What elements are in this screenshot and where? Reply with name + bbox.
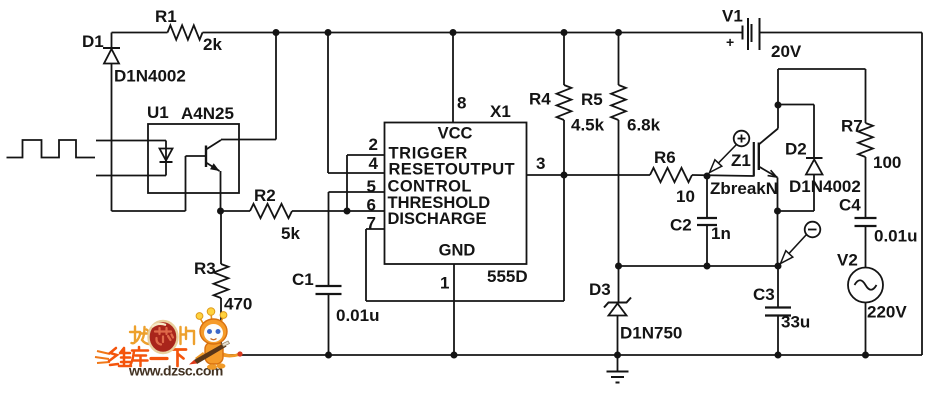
svg-text:ZbreakN: ZbreakN (710, 179, 778, 198)
svg-text:7: 7 (367, 214, 376, 233)
ground symbol (607, 355, 629, 383)
svg-text:R1: R1 (155, 7, 177, 26)
resistor R7 100 (841, 117, 901, 219)
svg-text:D1: D1 (82, 32, 104, 51)
svg-text:C1: C1 (292, 270, 314, 289)
wire input bottom to LED cathode (96, 175, 166, 177)
wire input top to LED anode (96, 140, 166, 142)
svg-text:C3: C3 (753, 285, 775, 304)
wire top rail right of battery to right edge (760, 32, 923, 34)
svg-text:VCC: VCC (438, 125, 473, 143)
svg-text:D3: D3 (589, 280, 611, 299)
svg-text:R2: R2 (254, 186, 276, 205)
svg-text:V2: V2 (837, 251, 858, 270)
capacitor C3 33u (753, 266, 810, 355)
svg-text:R5: R5 (581, 90, 603, 109)
capacitor C4 0.01u (839, 196, 917, 268)
svg-text:R3: R3 (194, 259, 216, 278)
resistor R5 6.8k (581, 29, 661, 266)
wire pin 3 OUTPUT (527, 154, 651, 175)
svg-text:CONTROL: CONTROL (388, 178, 472, 196)
svg-text:D1N4002: D1N4002 (789, 177, 861, 196)
wire U1 emitter down to node (220, 171, 222, 211)
svg-text:4: 4 (369, 154, 379, 173)
svg-text:C4: C4 (839, 196, 861, 215)
svg-text:0.01u: 0.01u (336, 306, 379, 325)
wire D1 to U1 base (112, 156, 186, 211)
svg-text:D2: D2 (785, 140, 807, 159)
node D3 to rail (614, 352, 621, 359)
wire bottom ground rail (221, 354, 922, 356)
svg-text:V1: V1 (722, 7, 743, 26)
node emitter/D2 junction (774, 208, 781, 215)
node C1 to ground rail (325, 352, 332, 359)
svg-text:1n: 1n (711, 224, 731, 243)
svg-text:Z1: Z1 (731, 151, 751, 170)
wire right edge rail (921, 33, 923, 356)
svg-text:+: + (726, 34, 734, 50)
capacitor C2 1n (670, 176, 731, 266)
resistor R2 5k (221, 186, 385, 243)
svg-text:C2: C2 (670, 216, 692, 235)
svg-text:8: 8 (457, 94, 466, 113)
svg-text:100: 100 (873, 153, 901, 172)
svg-text:U1: U1 (147, 103, 169, 122)
wire top supply rail (V1+ to left circuit) (112, 32, 743, 34)
resistor R4 4.5k (529, 29, 605, 175)
wire pin 7 DISCHARGE loop (366, 175, 564, 301)
wire U1 collector to top rail (221, 29, 280, 140)
svg-text:2k: 2k (203, 35, 222, 54)
svg-text:www.dzsc.com: www.dzsc.com (128, 363, 223, 379)
resistor R1 2k (155, 7, 222, 54)
svg-text:5: 5 (367, 177, 376, 196)
svg-text:4.5k: 4.5k (571, 116, 605, 135)
node C3 to rail (775, 352, 782, 359)
square-wave input signal (7, 140, 96, 158)
svg-text:X1: X1 (490, 102, 511, 121)
svg-text:33u: 33u (781, 313, 810, 332)
wire collector node to snubber (778, 69, 866, 123)
wire pin 2 TRIGGER (347, 135, 385, 211)
node R2/pin2/pin6 junction (344, 208, 351, 215)
svg-text:A4N25: A4N25 (181, 104, 234, 123)
svg-text:GND: GND (439, 242, 476, 260)
optocoupler U1 A4N25 box (147, 103, 239, 193)
diode D2 D1N4002 (778, 105, 861, 212)
svg-text:1: 1 (440, 274, 449, 293)
svg-text:2: 2 (369, 135, 378, 154)
battery V1 20V (722, 7, 802, 62)
resistor R3 470 (194, 211, 252, 355)
node collector junction (775, 102, 782, 109)
wire pin 6 THRESHOLD (367, 196, 376, 215)
resistor R6 10 (650, 148, 754, 206)
wire D3/C2/emitter node (615, 263, 782, 270)
node emitter/R2/R3 junction (217, 208, 224, 215)
svg-text:R6: R6 (654, 148, 676, 167)
svg-text:6.8k: 6.8k (627, 116, 661, 135)
svg-text:D1N750: D1N750 (620, 324, 682, 343)
svg-text:470: 470 (224, 295, 252, 314)
svg-text:3: 3 (536, 154, 545, 173)
svg-text:5k: 5k (281, 224, 300, 243)
svg-text:555D: 555D (487, 267, 528, 286)
capacitor C1 0.01u (292, 192, 379, 355)
node output/R4/discharge junction (561, 172, 568, 179)
wire pin 5 CONTROL to C1 (329, 177, 385, 196)
svg-text:R4: R4 (529, 90, 551, 109)
probe marker plus on gate node (710, 131, 750, 173)
IGBT Z1 ZbreakN (710, 69, 778, 266)
wire pin 1 GND to bottom rail (440, 264, 457, 359)
node gate/C2 junction (704, 173, 711, 180)
svg-text:R7: R7 (841, 117, 863, 136)
diode D1 D1N4002 (82, 32, 186, 211)
probe marker minus on emitter node (781, 222, 821, 264)
watermark logo www.dzsc.com (95, 308, 243, 379)
zener diode D3 D1N750 (589, 266, 682, 355)
node V2 to rail (862, 352, 869, 359)
AC source V2 220V (837, 251, 907, 356)
svg-text:20V: 20V (771, 42, 802, 61)
svg-text:D1N4002: D1N4002 (114, 67, 186, 86)
IC X1 555D timer box (385, 102, 528, 286)
svg-text:DISCHARGE: DISCHARGE (388, 210, 487, 228)
svg-text:220V: 220V (867, 303, 907, 322)
svg-text:10: 10 (676, 187, 695, 206)
svg-text:0.01u: 0.01u (874, 227, 917, 246)
svg-text:6: 6 (367, 196, 376, 215)
wire pin 4 RESET to top rail (325, 29, 385, 173)
wire pin 8 VCC to top rail (450, 29, 467, 123)
phototransistor inside U1 (186, 140, 222, 171)
svg-text:RESETOUTPUT: RESETOUTPUT (389, 161, 515, 179)
LED inside U1 (160, 141, 173, 176)
